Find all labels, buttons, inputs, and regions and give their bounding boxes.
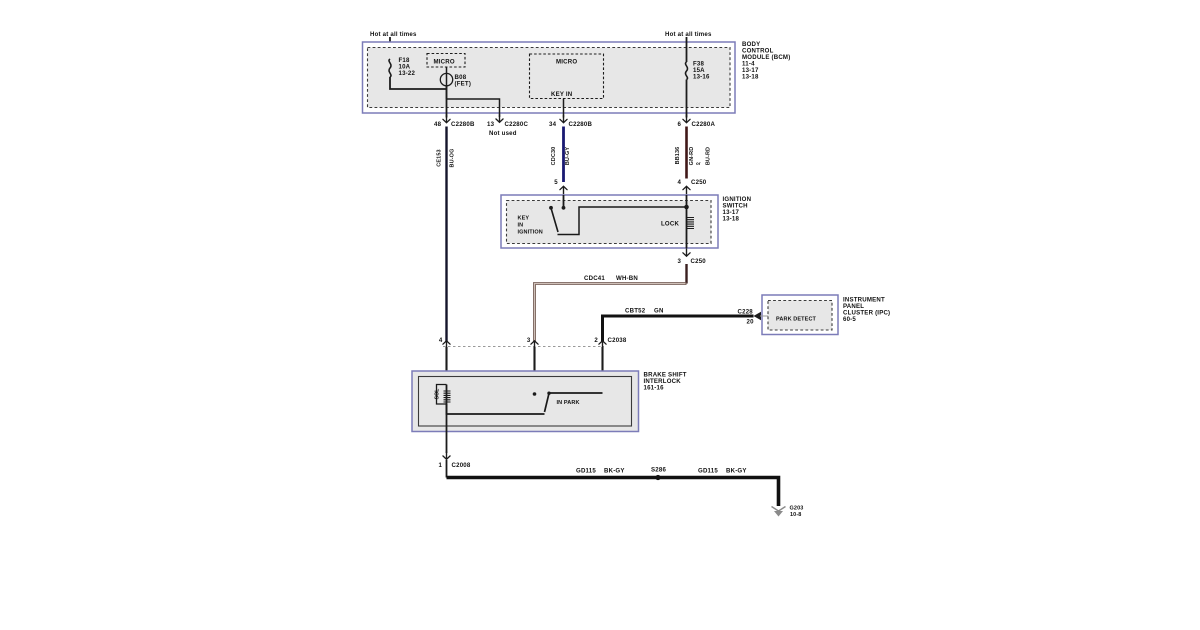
wire fuse F38 down (686, 80, 688, 118)
svg-text:SOL: SOL (435, 388, 441, 399)
svg-text:161-16: 161-16 (644, 385, 665, 392)
svg-text:C250: C250 (691, 179, 707, 186)
svg-text:KEY IN: KEY IN (551, 91, 572, 98)
wire switch to lock (558, 207, 687, 235)
svg-text:or: or (696, 161, 701, 166)
svg-text:13-18: 13-18 (742, 74, 759, 81)
svg-text:GD115: GD115 (698, 468, 718, 475)
connector pin 4 C250 (678, 179, 707, 194)
node Hot at all times (left) (370, 31, 417, 38)
svg-text:IN: IN (518, 223, 524, 229)
wire fuse F18 to FET (390, 77, 447, 89)
node junction lock (684, 205, 689, 210)
svg-text:BU-RD: BU-RD (706, 147, 712, 165)
wire CDC41 WH-BN (535, 264, 687, 342)
connector pin 1 C2008 (439, 451, 471, 469)
wire CE153 BU-OG (pin 48 down) (437, 127, 456, 342)
connector pin 3 C250 (678, 248, 707, 265)
svg-text:13-16: 13-16 (693, 74, 710, 81)
svg-text:(FET): (FET) (455, 81, 472, 88)
wire pin2 into BSI (601, 347, 603, 393)
wire solenoid to switch (447, 404, 545, 414)
wire pin4 into BSI (445, 347, 447, 385)
connector pin 2 C2038 (594, 337, 626, 349)
svg-text:KEY: KEY (518, 216, 530, 222)
Brake Shift Interlock box (412, 371, 687, 432)
node S286 splice (651, 467, 666, 481)
wire right feed (686, 37, 688, 62)
svg-text:60-5: 60-5 (843, 316, 856, 323)
connector C228 pin 20 (738, 309, 769, 326)
svg-text:MICRO: MICRO (434, 59, 455, 66)
Body Control Module box (363, 41, 791, 113)
node park contact (533, 392, 537, 396)
svg-text:GD115: GD115 (576, 468, 596, 475)
svg-text:Hot at all times: Hot at all times (370, 31, 417, 38)
svg-text:GN: GN (654, 308, 664, 315)
wire KEY IN output (563, 99, 565, 118)
svg-text:CDC41: CDC41 (584, 275, 605, 282)
svg-text:BK-GY: BK-GY (726, 468, 747, 475)
svg-text:MICRO: MICRO (556, 59, 577, 66)
wire switch common to pin2 (549, 392, 603, 394)
svg-text:Hot at all times: Hot at all times (665, 31, 712, 38)
svg-text:5: 5 (554, 179, 558, 186)
connector pin 5 (ignition switch) (554, 179, 567, 195)
svg-text:48: 48 (434, 121, 442, 128)
connector pin 4 C2038 (439, 337, 450, 349)
svg-text:PARK DETECT: PARK DETECT (776, 317, 817, 323)
svg-text:BK-GY: BK-GY (604, 468, 625, 475)
svg-text:GN-RD: GN-RD (689, 147, 695, 166)
wire FET output and branch (446, 86, 448, 118)
wire pin 5 into switch (563, 195, 565, 207)
svg-text:C250: C250 (691, 258, 707, 265)
connector pin 34 C2280B (549, 115, 592, 128)
svg-text:LOCK: LOCK (661, 221, 679, 228)
wire left feed (389, 37, 391, 59)
svg-text:2: 2 (594, 337, 598, 344)
Instrument Panel Cluster box (762, 295, 890, 335)
svg-text:4: 4 (439, 337, 443, 344)
svg-text:C2280A: C2280A (692, 121, 716, 128)
svg-text:C2038: C2038 (608, 337, 627, 344)
svg-text:13-22: 13-22 (399, 70, 416, 77)
svg-text:WH-BN: WH-BN (616, 275, 638, 282)
wire MICRO to FET (446, 67, 448, 74)
node Hot at all times (right) (665, 31, 712, 38)
ground G203 (772, 506, 804, 519)
wire BSI to pin1 (446, 414, 448, 453)
fuse F18 (389, 57, 416, 77)
MICRO box (center) (530, 54, 604, 99)
connector pin 6 C2280A (678, 115, 716, 128)
svg-text:S286: S286 (651, 467, 666, 474)
switch blade in-park (545, 393, 550, 412)
svg-text:3: 3 (678, 258, 682, 265)
Ignition Switch box (501, 195, 751, 248)
svg-text:6: 6 (678, 121, 682, 128)
svg-text:20: 20 (747, 319, 755, 326)
svg-text:CBT52: CBT52 (625, 308, 646, 315)
svg-text:34: 34 (549, 121, 557, 128)
connector pin 48 C2280B (434, 115, 475, 128)
svg-text:Not used: Not used (489, 130, 517, 137)
wire CDC30 BU-GY (pin 34 to pin 5) (551, 127, 571, 183)
node switch pivot (549, 206, 553, 210)
svg-text:IN PARK: IN PARK (557, 400, 580, 406)
svg-text:4: 4 (678, 179, 682, 186)
wire pin3 into BSI (533, 347, 535, 394)
svg-text:1: 1 (439, 462, 443, 469)
svg-text:C2008: C2008 (452, 462, 471, 469)
node switch contact (562, 206, 566, 210)
svg-text:CE153: CE153 (437, 149, 443, 166)
svg-text:C2280C: C2280C (505, 121, 529, 128)
node blade pivot (547, 392, 550, 395)
svg-text:CDC30: CDC30 (551, 147, 557, 166)
svg-text:13: 13 (487, 121, 495, 128)
FET driver B08 (440, 73, 471, 99)
svg-text:C228: C228 (738, 309, 754, 316)
connector pin 13 C2280C (487, 114, 528, 137)
solenoid BSI (435, 385, 451, 415)
switch blade key-in-ignition (551, 208, 558, 232)
wire CBT52 GN (603, 308, 754, 342)
svg-text:10-8: 10-8 (790, 512, 802, 518)
MICRO box (left) (427, 54, 465, 68)
svg-text:3: 3 (527, 337, 531, 344)
svg-text:C2280B: C2280B (569, 121, 593, 128)
wire GD115 BK-GY ground bus (447, 460, 779, 506)
svg-text:BU-OG: BU-OG (450, 149, 456, 168)
svg-text:BU-GY: BU-GY (565, 147, 571, 166)
svg-text:BB136: BB136 (675, 147, 681, 165)
connector pin 3 C2038 (527, 337, 538, 349)
fuse F38 (685, 61, 710, 81)
svg-text:C2280B: C2280B (451, 121, 475, 128)
wire BB136 GN-RD / BU-RD (pin 6 to C250 pin 4) (675, 127, 712, 179)
svg-text:IGNITION: IGNITION (518, 230, 543, 236)
svg-text:G203: G203 (790, 506, 804, 512)
lock coil (661, 195, 694, 248)
connector C2038 dashed line (443, 346, 604, 348)
svg-text:13-18: 13-18 (723, 216, 740, 223)
